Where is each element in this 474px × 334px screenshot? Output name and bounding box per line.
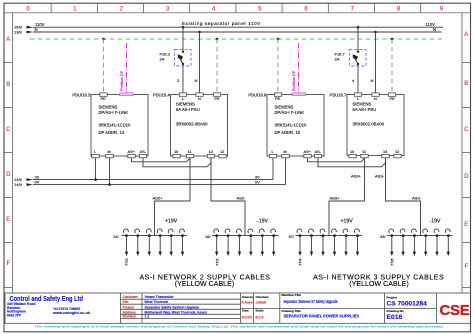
svg-text:37/: 37/ bbox=[288, 234, 294, 239]
svg-text:5A AS-I PSU: 5A AS-I PSU bbox=[176, 107, 200, 112]
svg-text:13: 13 bbox=[209, 149, 213, 154]
node junction N to PSU1 N bbox=[198, 31, 201, 34]
svg-text:Machine Title: Machine Title bbox=[282, 293, 302, 297]
svg-text:6: 6 bbox=[304, 6, 308, 12]
node comb 1 (AS-I network 2 +) tap 4 bbox=[156, 228, 162, 256]
svg-text:+19V: +19V bbox=[165, 219, 178, 225]
wire F-LINK2 AS+ to PSU2 pin 11 bbox=[308, 158, 365, 162]
label site row bbox=[123, 300, 169, 304]
label checked cell bbox=[256, 295, 269, 305]
wire F-LINK1 AS+ to PSU1 pin 11 bbox=[132, 158, 191, 162]
wire PSU1 L feed (wire 2) bbox=[177, 27, 183, 93]
node comb 2 (AS-I network 2 -) tap 3 bbox=[236, 228, 242, 256]
wire F-LINK1 L to 20 bus bbox=[95, 158, 97, 180]
svg-text:9: 9 bbox=[440, 6, 444, 12]
frame top reference band bbox=[4, 3, 471, 13]
svg-text:4: 4 bbox=[352, 78, 355, 83]
svg-text:B: B bbox=[464, 81, 468, 87]
pin AS+ terminal bottom F-LINK2 bbox=[304, 149, 312, 158]
label CSE logo bbox=[440, 302, 470, 319]
node comb 3 (AS-I network 3 +) supply tap bus bbox=[288, 219, 362, 239]
op-amp U3: F-LINK module PSU/16.6 bbox=[248, 92, 324, 156]
label drawing title cell bbox=[282, 309, 360, 319]
svg-text:L: L bbox=[94, 149, 97, 154]
pin L terminal bottom F-LINK2 bbox=[269, 149, 276, 158]
node source arrow 14/9 (0V) bbox=[14, 182, 33, 187]
svg-text:PE: PE bbox=[101, 96, 107, 101]
wire Profibus DP to F-LINK1 (magenta) bbox=[120, 43, 127, 93]
svg-text:DP ADDR. 14: DP ADDR. 14 bbox=[99, 130, 125, 135]
svg-text:12: 12 bbox=[395, 149, 399, 154]
svg-text:This drawing and copyright of: This drawing and copyright of it shall a… bbox=[34, 325, 444, 329]
pin 13 terminal bottom PSU2 bbox=[382, 149, 389, 158]
fuse F16.3 2A bbox=[160, 49, 192, 66]
svg-text:(YELLOW CABLE): (YELLOW CABLE) bbox=[175, 281, 234, 288]
node junction N to PSU2 N bbox=[374, 31, 377, 34]
label revision row bbox=[123, 315, 150, 319]
svg-text:N: N bbox=[195, 78, 198, 83]
svg-text:13/: 13/ bbox=[113, 234, 119, 239]
svg-text:DP/AS-I F-LINK: DP/AS-I F-LINK bbox=[275, 110, 305, 115]
op-amp U1: F-LINK module PSU/16.3 bbox=[72, 92, 148, 156]
svg-text:N: N bbox=[371, 78, 374, 83]
svg-text:C: C bbox=[6, 127, 11, 133]
svg-text:F: F bbox=[6, 261, 10, 267]
pin 10 terminal bottom PSU2 bbox=[349, 149, 356, 158]
pin AS- terminal bottom F-LINK2 bbox=[314, 149, 321, 158]
pin N terminal top PSU2 bbox=[372, 93, 379, 101]
svg-text:8: 8 bbox=[397, 6, 401, 12]
label drawing number cell bbox=[387, 309, 404, 321]
svg-text:Scale: Scale bbox=[256, 309, 264, 313]
svg-text:M: M bbox=[284, 149, 287, 154]
svg-text:N: N bbox=[433, 27, 436, 32]
wire PE drop to PSU2 bbox=[391, 39, 393, 93]
node comb 1 (AS-I network 2 +) tap 2 bbox=[134, 228, 140, 256]
pin M terminal bottom F-LINK2 bbox=[282, 149, 289, 158]
svg-text:1.2: 1.2 bbox=[145, 315, 150, 319]
right row letters A-F bbox=[464, 32, 469, 270]
node junction 110V to PSU1 L bbox=[182, 26, 185, 29]
svg-text:Motherwell Way, West Thurrock,: Motherwell Way, West Thurrock, Essex bbox=[145, 310, 208, 314]
node comb 4 (AS-I network 3 -) tap 5 bbox=[433, 228, 439, 256]
svg-text:10: 10 bbox=[350, 149, 355, 154]
svg-text:AS3-: AS3- bbox=[375, 174, 385, 179]
svg-text:Separator Siemens S7 Safety Up: Separator Siemens S7 Safety Upgrade bbox=[284, 299, 338, 304]
wire 20 dc bus bbox=[33, 174, 273, 179]
svg-text:-19V: -19V bbox=[257, 219, 268, 225]
svg-text:Existing separator panel 110V: Existing separator panel 110V bbox=[182, 21, 261, 26]
svg-text:5A AS-I PSU: 5A AS-I PSU bbox=[353, 107, 377, 112]
wire AS3+ from PSU2 pin 11 to comb3 bbox=[329, 158, 365, 236]
wire PE drop to PSU1 bbox=[216, 39, 218, 93]
node junction L/20 bbox=[94, 178, 97, 181]
node PE junction PSU1 bbox=[216, 38, 219, 41]
svg-text:L: L bbox=[272, 149, 275, 154]
pin PE terminal top F-LINK2 bbox=[274, 93, 281, 101]
svg-text:NG9 2PP: NG9 2PP bbox=[7, 313, 22, 317]
svg-text:PSU16.7: PSU16.7 bbox=[330, 92, 347, 97]
svg-text:77/0: 77/0 bbox=[124, 258, 129, 266]
node junction M/0V bbox=[108, 183, 111, 186]
svg-text:3: 3 bbox=[166, 6, 170, 12]
node PE junction F-LINK1 bbox=[102, 38, 105, 41]
svg-text:www.csengltd.co.uk: www.csengltd.co.uk bbox=[52, 311, 90, 315]
svg-text:DP/AS-I F-LINK: DP/AS-I F-LINK bbox=[99, 110, 129, 115]
svg-text:2A: 2A bbox=[335, 57, 340, 62]
svg-text:PE: PE bbox=[390, 96, 396, 101]
svg-text:E: E bbox=[6, 217, 10, 223]
svg-text:D: D bbox=[6, 172, 11, 178]
svg-text:Veram Thameside: Veram Thameside bbox=[145, 295, 174, 299]
svg-text:N.T.S: N.T.S bbox=[256, 315, 265, 319]
svg-text:PE: PE bbox=[215, 96, 221, 101]
node comb 1 (AS-I network 2 +) tap 3 bbox=[145, 228, 151, 256]
svg-text:PSU/16.6: PSU/16.6 bbox=[248, 92, 267, 97]
node comb 3 (AS-I network 3 +) tap 2 bbox=[308, 228, 314, 256]
pin L terminal top PSU1 bbox=[179, 93, 186, 101]
node comb 1 (AS-I network 2 +) tap 5 bbox=[167, 228, 173, 256]
svg-text:DP ADDR. 15: DP ADDR. 15 bbox=[275, 130, 301, 135]
svg-text:PSU16.4: PSU16.4 bbox=[153, 92, 170, 97]
wire Profibus DP to F-LINK2 (magenta) bbox=[292, 43, 299, 93]
wire 0V bus rise to F-LINK2 M bbox=[285, 158, 287, 185]
node comb 4 (AS-I network 3 -) tap 4 bbox=[422, 228, 428, 256]
node comb 1 (AS-I network 2 +) supply tap bus bbox=[113, 219, 187, 239]
label copyright small print bbox=[34, 325, 444, 329]
svg-text:Drawing No: Drawing No bbox=[387, 309, 404, 313]
label project row bbox=[123, 305, 200, 309]
wire AS3- from PSU2 pin 13 to comb4 bbox=[375, 158, 422, 236]
svg-text:AS3+: AS3+ bbox=[351, 174, 362, 179]
svg-text:Profibus DP: Profibus DP bbox=[120, 70, 124, 91]
wire PE drop to F-LINK2 bbox=[277, 39, 279, 93]
svg-text:Drawn by: Drawn by bbox=[242, 295, 253, 299]
svg-text:C: C bbox=[464, 127, 469, 133]
node comb 4 (AS-I network 3 -) tap 6 bbox=[444, 228, 450, 256]
svg-text:2: 2 bbox=[120, 6, 124, 12]
wire PSU2 L feed (wire 4) bbox=[352, 27, 358, 93]
node comb 3 (AS-I network 3 +) tap 5 bbox=[342, 228, 348, 256]
svg-text:AS-: AS- bbox=[315, 149, 322, 154]
wire 20 bus rise to F-LINK2 L bbox=[272, 158, 274, 180]
svg-text:1: 1 bbox=[73, 6, 77, 12]
frame right reference band bbox=[462, 13, 471, 293]
svg-text:13/9: 13/9 bbox=[14, 29, 23, 34]
svg-text:Checked: Checked bbox=[256, 295, 269, 299]
node comb 1 (AS-I network 2 +) tap 1 bbox=[123, 228, 129, 266]
svg-text:AS2+: AS2+ bbox=[153, 196, 164, 201]
wire AS2- from PSU1 pin 13 to comb2 bbox=[211, 158, 246, 236]
label company logo Control and Safety Eng Ltd bbox=[7, 296, 90, 318]
wire F-LINK2 AS- to PSU2 pin 13 bbox=[318, 158, 386, 167]
svg-text:B: B bbox=[6, 82, 10, 88]
svg-text:Tel 07973 746652: Tel 07973 746652 bbox=[53, 307, 80, 311]
svg-text:F: F bbox=[464, 264, 468, 270]
node source arrow 14/9 (20) bbox=[14, 177, 33, 182]
node comb 2 (AS-I network 2 -) tap 4 bbox=[247, 228, 253, 256]
svg-text:CS 70001284: CS 70001284 bbox=[387, 301, 428, 308]
svg-text:0V: 0V bbox=[255, 179, 260, 184]
svg-text:5: 5 bbox=[258, 6, 262, 12]
pin PE terminal top PSU1 bbox=[213, 93, 220, 101]
node comb 2 (AS-I network 2 -) tap 5 bbox=[258, 228, 264, 256]
pin 11 terminal bottom PSU2 bbox=[361, 149, 368, 158]
wire AS2+ from PSU1 pin 11 to comb1 bbox=[153, 158, 191, 236]
frame left reference band bbox=[4, 13, 13, 293]
svg-text:N: N bbox=[35, 27, 38, 32]
node source arrow 15/9 bbox=[14, 25, 33, 30]
pin M terminal bottom F-LINK1 bbox=[106, 149, 113, 158]
left row letters A-F bbox=[6, 37, 11, 267]
op-amp U4: AS-I power supply PSU16.7 bbox=[330, 92, 404, 155]
svg-text:77/4: 77/4 bbox=[298, 258, 303, 266]
svg-text:AS+: AS+ bbox=[128, 149, 136, 154]
pin N terminal top PSU1 bbox=[196, 93, 203, 101]
svg-text:AS-: AS- bbox=[140, 149, 147, 154]
node PE junction F-LINK2 bbox=[277, 38, 280, 41]
label scale cell bbox=[256, 309, 265, 320]
label AS-I NETWORK 2 SUPPLY CABLES bbox=[139, 274, 270, 288]
svg-text:Customer: Customer bbox=[123, 295, 139, 299]
pin AS- terminal bottom F-LINK1 bbox=[139, 149, 146, 158]
pin L terminal bottom F-LINK1 bbox=[92, 149, 99, 158]
node comb 2 (AS-I network 2 -) tap 1 bbox=[213, 228, 219, 266]
svg-text:N: N bbox=[198, 96, 201, 101]
wire N supply bus bbox=[33, 27, 442, 32]
node junction 110V to PSU2 L bbox=[357, 26, 360, 29]
svg-text:0V: 0V bbox=[35, 179, 40, 184]
svg-text:A: A bbox=[6, 37, 10, 43]
svg-text:18/: 18/ bbox=[205, 234, 211, 239]
pin PE terminal top F-LINK1 bbox=[100, 93, 107, 101]
pin AS+ terminal bottom F-LINK1 bbox=[128, 149, 136, 158]
node comb 4 (AS-I network 3 -) tap 1 bbox=[388, 228, 394, 266]
node comb 2 (AS-I network 2 -) tap 2 bbox=[224, 228, 230, 256]
node comb 2 (AS-I network 2 -) supply tap bus bbox=[205, 219, 279, 239]
wire PSU2 N feed bbox=[371, 32, 376, 93]
svg-text:10: 10 bbox=[174, 149, 179, 154]
label Existing separator panel 110V bbox=[182, 21, 261, 26]
svg-text:Site: Site bbox=[123, 300, 129, 304]
pin L terminal top PSU2 bbox=[354, 93, 361, 101]
svg-text:Revision: Revision bbox=[123, 315, 137, 319]
svg-text:E016: E016 bbox=[387, 314, 403, 321]
label project number cell bbox=[387, 295, 428, 307]
label drawn by cell bbox=[242, 295, 254, 305]
node PE junction PSU2 bbox=[391, 38, 394, 41]
pin 13 terminal bottom PSU1 bbox=[207, 149, 214, 158]
svg-text:12: 12 bbox=[220, 149, 224, 154]
svg-text:E: E bbox=[464, 222, 468, 228]
node Profibus connector patch F-LINK2 (magenta) bbox=[292, 93, 306, 96]
svg-text:3RK3141-1CD10: 3RK3141-1CD10 bbox=[275, 122, 308, 127]
svg-text:28-11-2010: 28-11-2010 bbox=[242, 315, 253, 319]
svg-text:AS3-: AS3- bbox=[412, 196, 422, 201]
node source arrow 13/9 bbox=[14, 29, 33, 34]
svg-text:AS3+: AS3+ bbox=[330, 196, 341, 201]
svg-text:SEPARATOR PANEL POWER SUPPLIES: SEPARATOR PANEL POWER SUPPLIES bbox=[284, 314, 360, 319]
node comb 3 (AS-I network 3 +) tap 4 bbox=[331, 228, 337, 256]
svg-text:West Thurrock: West Thurrock bbox=[145, 300, 169, 304]
wire PSU1 N feed bbox=[195, 32, 200, 93]
svg-text:2A: 2A bbox=[160, 57, 165, 62]
svg-text:77/6: 77/6 bbox=[389, 258, 394, 266]
svg-text:AS2-: AS2- bbox=[237, 196, 247, 201]
node comb 3 (AS-I network 3 +) tap 1 bbox=[296, 228, 302, 266]
svg-text:2: 2 bbox=[177, 78, 180, 83]
svg-text:A: A bbox=[464, 32, 468, 38]
label date cell bbox=[242, 309, 253, 320]
svg-text:Separator Safety System Upgrad: Separator Safety System Upgrade bbox=[145, 305, 200, 309]
node comb 2 (AS-I network 2 -) tap 6 bbox=[270, 228, 276, 256]
svg-text:3RK3141-1CD10: 3RK3141-1CD10 bbox=[99, 122, 132, 127]
node Profibus connector patch F-LINK1 (magenta) bbox=[120, 93, 134, 96]
pin 10 terminal bottom PSU1 bbox=[173, 149, 180, 158]
wire PE green dashed bus bbox=[30, 38, 442, 40]
label AS-I NETWORK 3 SUPPLY CABLES bbox=[313, 274, 444, 288]
svg-text:J.Bade: J.Bade bbox=[256, 301, 267, 305]
svg-text:PSU/16.3: PSU/16.3 bbox=[72, 92, 91, 97]
svg-text:CSE: CSE bbox=[440, 302, 470, 319]
svg-text:PE: PE bbox=[275, 96, 281, 101]
svg-text:11: 11 bbox=[188, 149, 192, 154]
title block frame bbox=[5, 293, 471, 323]
svg-text:N: N bbox=[374, 96, 377, 101]
wire PE drop to F-LINK1 bbox=[103, 39, 105, 93]
label address row bbox=[123, 310, 208, 314]
svg-text:3RX9002-0BA00: 3RX9002-0BA00 bbox=[176, 122, 208, 127]
svg-text:14/9: 14/9 bbox=[14, 182, 23, 187]
svg-text:Project: Project bbox=[387, 295, 398, 299]
top column numbers 0-9 bbox=[26, 6, 444, 12]
node comb 1 (AS-I network 2 +) tap 6 bbox=[179, 228, 185, 256]
svg-text:D: D bbox=[464, 174, 469, 180]
svg-text:3RX9002-0BA00: 3RX9002-0BA00 bbox=[353, 122, 385, 127]
svg-text:77/2: 77/2 bbox=[214, 258, 219, 266]
svg-text:M: M bbox=[108, 149, 111, 154]
svg-text:0: 0 bbox=[26, 6, 30, 12]
node comb 4 (AS-I network 3 -) supply tap bus bbox=[380, 219, 453, 239]
op-amp U2: AS-I power supply PSU16.4 bbox=[153, 92, 227, 156]
svg-text:K.Kaye: K.Kaye bbox=[242, 301, 253, 305]
pin 11 terminal bottom PSU1 bbox=[186, 149, 193, 158]
svg-text:-19V: -19V bbox=[430, 219, 441, 225]
pin 12 terminal bottom PSU2 bbox=[394, 149, 401, 158]
svg-text:Drawing Title: Drawing Title bbox=[282, 309, 302, 313]
svg-text:4: 4 bbox=[212, 6, 216, 12]
wire 0V dc bus bbox=[33, 179, 286, 184]
svg-text:AS+: AS+ bbox=[304, 149, 312, 154]
pin PE terminal top PSU2 bbox=[388, 93, 395, 101]
svg-text:+19V: +19V bbox=[341, 219, 354, 225]
svg-text:43/: 43/ bbox=[380, 234, 386, 239]
label machine title cell bbox=[282, 293, 338, 304]
svg-text:7: 7 bbox=[351, 6, 355, 12]
node comb 4 (AS-I network 3 -) tap 2 bbox=[399, 228, 405, 256]
svg-text:11: 11 bbox=[362, 149, 366, 154]
node comb 3 (AS-I network 3 +) tap 6 bbox=[354, 228, 360, 256]
fuse F16.7 2A bbox=[335, 49, 367, 66]
svg-text:(YELLOW CABLE): (YELLOW CABLE) bbox=[349, 281, 408, 288]
wire F-LINK1 M to 0V bus bbox=[109, 158, 111, 185]
svg-text:13: 13 bbox=[383, 149, 387, 154]
wire 110V supply bus bbox=[33, 22, 443, 27]
svg-text:Project: Project bbox=[123, 305, 135, 309]
node comb 3 (AS-I network 3 +) tap 3 bbox=[319, 228, 325, 256]
wire F-LINK1 AS- to PSU1 pin 13 bbox=[143, 158, 211, 167]
label customer row bbox=[123, 295, 174, 299]
pin 12 terminal bottom PSU1 bbox=[219, 149, 226, 158]
svg-text:Profibus DP: Profibus DP bbox=[292, 70, 296, 91]
svg-text:Date: Date bbox=[242, 309, 249, 313]
node comb 4 (AS-I network 3 -) tap 3 bbox=[411, 228, 417, 256]
